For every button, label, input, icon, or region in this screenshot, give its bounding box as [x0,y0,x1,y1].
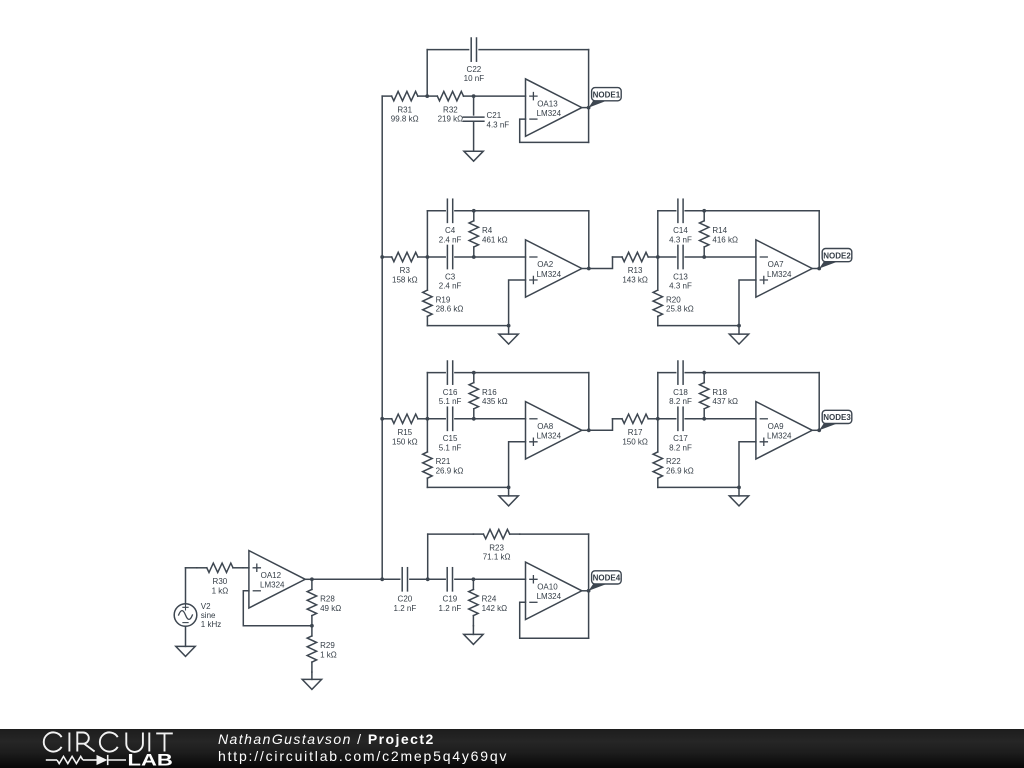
svg-text:C17: C17 [673,434,688,443]
svg-text:1.2 nF: 1.2 nF [394,604,417,613]
wire to R23 [428,533,474,535]
wire main input bus [381,96,383,579]
svg-text:2.4 nF: 2.4 nF [439,282,462,291]
wire +in to ground node [509,280,526,326]
node ground junction [507,486,511,490]
resistor R31 [382,91,427,123]
node R32/C21 junction [472,94,476,98]
capacitor C18 [669,361,692,406]
wire to OA13 +in [474,95,526,97]
wire main through series cap [427,256,525,258]
wire output vertical [588,373,590,431]
svg-text:R17: R17 [628,428,643,437]
svg-text:OA10: OA10 [537,583,558,592]
svg-text:99.8 kΩ: 99.8 kΩ [391,115,419,124]
node stage input junction [426,417,430,421]
svg-text:V2: V2 [201,602,211,611]
logo resistor symbol [46,755,126,765]
wire up to R23 [427,534,429,579]
svg-text:C14: C14 [673,226,688,235]
wire junction up to feedback [426,373,428,419]
svg-text:437 kΩ: 437 kΩ [712,397,738,406]
capacitor C4 [439,199,462,244]
node ground junction [737,324,741,328]
wire top feedback [658,372,819,374]
resistor R32 [427,91,473,123]
node output [817,267,821,271]
wire top feedback [427,49,588,51]
wire junction up to feedback [426,211,428,257]
node OA13 output [587,106,591,110]
resistor R15 [382,414,427,446]
wire row4 main line [312,578,525,580]
resistor R3 [382,252,427,284]
resistor R28 [307,579,341,626]
svg-text:158 kΩ: 158 kΩ [392,276,418,285]
wire output vertical [588,534,590,638]
svg-text:C22: C22 [467,65,482,74]
logo word CIRCUIT [44,732,173,751]
wire output vertical [818,211,820,269]
footer project title [218,731,508,765]
svg-text:R4: R4 [482,226,493,235]
svg-text:NODE2: NODE2 [823,251,851,260]
op-amp OA13 [526,79,589,136]
node bus row2 [380,255,384,259]
svg-text:10 nF: 10 nF [464,74,485,83]
ground [499,326,518,345]
svg-text:OA7: OA7 [768,260,785,269]
svg-text:26.9 kΩ: 26.9 kΩ [436,466,464,475]
wire main through series cap [427,418,525,420]
ground [302,672,321,689]
svg-text:461 kΩ: 461 kΩ [482,235,508,244]
svg-text:R19: R19 [436,295,451,304]
voltage source V2 [174,568,221,647]
svg-text:R29: R29 [320,641,335,650]
svg-text:416 kΩ: 416 kΩ [712,235,738,244]
node C20/C19 junction [426,577,430,581]
resistor R19 [423,257,464,326]
svg-text:R32: R32 [443,105,458,114]
wire output vertical [588,50,590,143]
svg-text:142 kΩ: 142 kΩ [482,604,508,613]
svg-text:LM324: LM324 [537,270,562,279]
svg-text:25.8 kΩ: 25.8 kΩ [666,305,694,314]
svg-text:R18: R18 [712,388,727,397]
wire top feedback [658,210,819,212]
wire +in to ground node [739,280,756,326]
svg-text:LM324: LM324 [767,432,792,441]
wire main through series cap [658,418,756,420]
svg-text:C15: C15 [443,434,458,443]
node flag NODE4 [589,571,622,591]
svg-text:435 kΩ: 435 kΩ [482,397,508,406]
capacitor C19 [439,568,462,613]
node flag NODE1 [589,88,622,108]
svg-text:C3: C3 [445,272,456,281]
wire junction up to feedback [657,373,659,419]
node feedback R top [702,371,706,375]
svg-text:49 kΩ: 49 kΩ [320,604,341,613]
capacitor C16 [439,361,462,406]
wire OA2 out to R13 [589,257,613,269]
svg-text:C4: C4 [445,226,456,235]
svg-text:R23: R23 [489,543,504,552]
capacitor C3 [439,245,462,290]
node output [587,267,591,271]
svg-text:C20: C20 [398,595,413,604]
svg-text:OA2: OA2 [537,260,554,269]
svg-text:5.1 nF: 5.1 nF [439,397,462,406]
svg-text:28.6 kΩ: 28.6 kΩ [436,305,464,314]
svg-text:LM324: LM324 [260,581,285,590]
svg-text:R28: R28 [320,595,335,604]
wire +in to ground node [509,442,526,488]
svg-text:4.3 nF: 4.3 nF [669,282,692,291]
node output [587,428,591,432]
node R31/R32 junction [425,94,429,98]
node OA12 output [310,577,314,581]
resistor R17 [613,414,658,446]
svg-text:OA8: OA8 [537,422,554,431]
node stage input junction [656,417,660,421]
wire top feedback [427,372,588,374]
op-amp OA7 [756,240,819,297]
resistor R16 [469,373,507,419]
ground [176,646,195,656]
svg-text:1 kΩ: 1 kΩ [212,586,229,595]
capacitor C15 [439,407,462,452]
wire OA8 out to R17 [589,419,613,431]
logo diode symbol [97,755,108,765]
svg-text:1.2 nF: 1.2 nF [439,604,462,613]
svg-text:C13: C13 [673,272,688,281]
svg-text:NODE1: NODE1 [593,91,621,100]
svg-text:C21: C21 [487,111,502,120]
svg-text:C19: C19 [443,595,458,604]
svg-text:R20: R20 [666,295,681,304]
op-amp OA10 [526,562,589,619]
resistor R14 [700,211,738,257]
resistor R23 [473,529,519,561]
svg-text:R3: R3 [400,266,411,275]
svg-text:R16: R16 [482,388,497,397]
node flag NODE2 [819,249,852,269]
svg-text:R30: R30 [213,577,228,586]
svg-text:R31: R31 [397,105,412,114]
wire R23 to output vertical [520,533,589,535]
node feedback R bottom [702,417,706,421]
wire output vertical [588,211,590,269]
ground [464,626,483,645]
node stage input junction [656,255,660,259]
svg-text:R24: R24 [482,595,497,604]
svg-text:OA12: OA12 [261,571,282,580]
svg-text:1 kΩ: 1 kΩ [320,650,337,659]
resistor R20 [653,257,694,326]
svg-text:sine: sine [201,611,216,620]
ground [729,326,748,345]
resistor R29 [307,626,337,672]
wire C21 top lead [473,96,475,115]
svg-text:2.4 nF: 2.4 nF [439,235,462,244]
node ground junction [737,486,741,490]
wire OA10 -in feedback [520,602,589,638]
svg-text:LM324: LM324 [537,432,562,441]
capacitor C21 [463,111,509,129]
wire C21 to ground [473,121,475,151]
svg-text:5.1 nF: 5.1 nF [439,443,462,452]
wire V2 to R30 [186,567,197,569]
resistor R22 [653,419,694,488]
node C19/R24 junction [472,577,476,581]
node flag NODE3 [819,410,852,430]
node stage input junction [426,255,430,259]
svg-text:R15: R15 [397,428,412,437]
svg-text:LM324: LM324 [537,109,562,118]
wire bottom to ground node [427,486,508,488]
svg-text:LM324: LM324 [767,270,792,279]
op-amp OA2 [526,240,589,297]
wire junction up to feedback [657,211,659,257]
wire +in to ground node [739,442,756,488]
ground [499,487,518,506]
wire OA12 -in feedback [243,591,312,626]
svg-text:C18: C18 [673,388,688,397]
node feedback R bottom [702,255,706,259]
resistor R4 [469,211,507,257]
svg-text:143 kΩ: 143 kΩ [622,276,648,285]
svg-text:NODE4: NODE4 [593,574,621,583]
node output [817,428,821,432]
svg-text:OA13: OA13 [537,99,558,108]
resistor R24 [469,579,507,625]
resistor R21 [423,419,464,488]
resistor R13 [613,252,658,284]
capacitor C22 [464,38,485,83]
svg-text:LM324: LM324 [537,592,562,601]
svg-text:LAB: LAB [128,752,173,768]
node R28/R29 junction [310,624,314,628]
node feedback R top [472,209,476,213]
svg-text:C16: C16 [443,388,458,397]
svg-text:8.2 nF: 8.2 nF [669,397,692,406]
wire output vertical [818,373,820,431]
svg-text:R22: R22 [666,457,681,466]
svg-text:R14: R14 [712,226,727,235]
wire top feedback [427,210,588,212]
svg-text:R21: R21 [436,457,451,466]
ground [729,487,748,506]
capacitor C14 [669,199,692,244]
node feedback R top [702,209,706,213]
resistor R30 [197,563,243,595]
svg-text:1 kHz: 1 kHz [201,620,221,629]
wire main through series cap [658,256,756,258]
capacitor C17 [669,407,692,452]
svg-text:NODE3: NODE3 [823,413,851,422]
node bus row4 [380,577,384,581]
op-amp OA8 [526,402,589,459]
node bus row3 [380,417,384,421]
svg-text:219 kΩ: 219 kΩ [438,115,464,124]
ground [464,151,483,161]
node ground junction [507,324,511,328]
wire OA13 -in feedback [520,119,589,142]
svg-text:OA9: OA9 [768,422,785,431]
node feedback R top [472,371,476,375]
op-amp OA12 [249,551,312,608]
svg-text:150 kΩ: 150 kΩ [622,437,648,446]
node feedback R bottom [472,417,476,421]
wire bottom to ground node [658,325,739,327]
svg-text:R13: R13 [628,266,643,275]
svg-text:71.1 kΩ: 71.1 kΩ [483,553,511,562]
footer bar [0,729,1024,768]
node OA10 output [587,589,591,593]
svg-text:150 kΩ: 150 kΩ [392,437,418,446]
wire bottom to ground node [427,325,508,327]
wire bottom to ground node [658,486,739,488]
resistor R18 [700,373,738,419]
svg-text:4.3 nF: 4.3 nF [487,121,510,130]
capacitor C13 [669,245,692,290]
op-amp OA9 [756,402,819,459]
svg-text:26.9 kΩ: 26.9 kΩ [666,466,694,475]
wire R30 to OA12 +in [243,567,249,569]
svg-text:4.3 nF: 4.3 nF [669,235,692,244]
capacitor C20 [394,568,417,613]
svg-text:8.2 nF: 8.2 nF [669,443,692,452]
node feedback R bottom [472,255,476,259]
wire feedback left vertical [426,50,428,97]
